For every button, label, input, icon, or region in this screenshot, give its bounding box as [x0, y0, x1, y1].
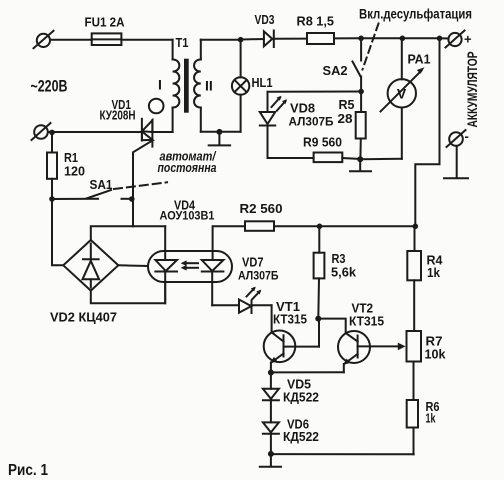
node junction [358, 89, 364, 95]
dashed link SA2 [363, 24, 379, 70]
svg-text:R9 560: R9 560 [303, 135, 342, 150]
diode VD3 [264, 31, 274, 48]
resistor R5 [356, 92, 366, 160]
svg-text:10k: 10k [425, 347, 447, 362]
wire secondary bottom rail [201, 131, 241, 133]
wire [270, 434, 272, 454]
bridge rectifier VD2 [63, 240, 118, 291]
wire [334, 37, 361, 39]
svg-text:КД522: КД522 [283, 429, 319, 444]
wire [121, 39, 172, 41]
wire top rail right [241, 38, 264, 41]
node junction [413, 224, 419, 230]
node junction [49, 130, 55, 136]
svg-text:II: II [205, 78, 213, 94]
resistor R8 [307, 33, 334, 44]
svg-text:VD7: VD7 [242, 255, 264, 270]
switch SA2 [353, 38, 362, 91]
svg-text:~220В: ~220В [31, 78, 68, 96]
transistor VT2 [338, 331, 406, 372]
LED VD8 [260, 92, 287, 158]
wire [440, 37, 449, 39]
svg-text:28: 28 [338, 111, 353, 126]
svg-text:VD2 КЦ407: VD2 КЦ407 [50, 310, 117, 325]
svg-text:+: + [464, 32, 472, 47]
svg-text:1k: 1k [427, 265, 441, 280]
node junction [238, 37, 244, 43]
wire [274, 225, 320, 227]
wire battery minus branch [415, 38, 439, 226]
svg-text:R5: R5 [339, 97, 355, 112]
dashed link SA1 [114, 182, 167, 189]
wire bottom rail [271, 453, 414, 455]
diode VD5 [263, 373, 279, 401]
node junction [129, 196, 135, 202]
svg-text:АЛ307Б: АЛ307Б [238, 269, 279, 283]
wire secondary top [201, 39, 241, 41]
svg-text:Т1: Т1 [176, 35, 189, 50]
resistor R4 [407, 226, 421, 331]
optocoupler LED (right) [202, 226, 245, 305]
node junction [49, 196, 55, 202]
svg-text:5,6k: 5,6k [331, 265, 357, 280]
battery minus stub [444, 146, 468, 178]
wire bridge right to optocoupler [118, 264, 148, 267]
transformer T1 primary winding I [173, 40, 180, 132]
wire [50, 39, 92, 41]
svg-text:КТ315: КТ315 [349, 314, 384, 329]
terminal X2 (~220V bottom) [32, 123, 51, 140]
svg-text:Рис. 1: Рис. 1 [8, 462, 48, 479]
switch SA1 [52, 190, 132, 199]
svg-text:АККУМУЛЯТОР: АККУМУЛЯТОР [464, 52, 480, 128]
node junction [268, 370, 274, 376]
svg-text:SA2: SA2 [323, 63, 348, 78]
wire [361, 37, 402, 39]
resistor R9 [268, 153, 361, 163]
node junction [268, 451, 274, 457]
wire VD8 box top rail [268, 91, 362, 93]
svg-text:I: I [158, 77, 162, 93]
transformer core [184, 59, 189, 113]
svg-text:VD3: VD3 [255, 12, 275, 27]
svg-text:КУ208Н: КУ208Н [100, 108, 136, 123]
ground [260, 454, 281, 467]
node junction [317, 224, 323, 230]
wire rail to battery branch [320, 225, 416, 227]
wire bridge bottom [91, 282, 165, 303]
resistor R2 [245, 221, 274, 231]
voltmeter PA1 [381, 38, 425, 159]
node junction [437, 36, 443, 42]
transistor VT1 [264, 319, 319, 373]
lamp HL1 [232, 40, 249, 132]
resistor R1 [47, 132, 57, 199]
wire to VT2 base [318, 319, 345, 333]
svg-text:FU1 2A: FU1 2A [85, 15, 126, 30]
wire bridge top to gate rail [91, 226, 165, 240]
wire [270, 400, 272, 422]
svg-text:АОУ103В1: АОУ103В1 [160, 209, 215, 223]
resistor R6 [407, 362, 418, 455]
svg-text:120: 120 [64, 164, 85, 179]
svg-text:РА1: РА1 [408, 52, 431, 67]
svg-text:1k: 1k [426, 411, 437, 426]
wire VD7 to VT1 [271, 305, 273, 332]
svg-text:АЛ307Б: АЛ307Б [289, 115, 334, 129]
node junction [357, 156, 363, 162]
terminal battery - [447, 130, 466, 147]
node junction [216, 129, 222, 135]
wire [402, 37, 439, 39]
resistor R3 [314, 226, 325, 318]
circle mark above triac [149, 99, 164, 114]
optocoupler U1 VD4 body [148, 251, 232, 282]
LED VD7 [212, 287, 271, 313]
terminal battery + [446, 31, 465, 48]
wire emitter rail [271, 371, 344, 373]
svg-text:КТ315: КТ315 [273, 312, 307, 327]
svg-text:SA1: SA1 [90, 177, 113, 192]
svg-text:Вкл.десульфатация: Вкл.десульфатация [359, 7, 472, 22]
diode VD6 [263, 422, 279, 433]
potentiometer R7 [407, 331, 422, 362]
svg-text:V: V [397, 86, 407, 102]
svg-text:HL1: HL1 [252, 75, 273, 90]
wire gate down [132, 199, 134, 226]
svg-text:R8 1,5: R8 1,5 [297, 14, 335, 29]
svg-text:КД522: КД522 [283, 390, 319, 405]
optocoupler light arrows [181, 260, 198, 270]
node junction [400, 36, 406, 42]
svg-text:-: - [465, 129, 469, 144]
wire left branch down [52, 199, 63, 265]
transformer T1 secondary winding II [194, 40, 201, 132]
svg-text:постоянна: постоянна [158, 160, 217, 175]
node junction [358, 36, 364, 42]
node junction [315, 316, 321, 322]
svg-text:VD8: VD8 [290, 101, 315, 116]
ground [350, 159, 371, 171]
terminal X1 (~220V top) [34, 31, 54, 48]
thyristor VD1 (triac) [48, 119, 173, 199]
svg-text:R2 560: R2 560 [240, 201, 283, 216]
ground [209, 132, 230, 146]
wire [275, 38, 307, 40]
wire voltmeter to R5/R9 node [360, 158, 402, 160]
optocoupler photothyristor (left) [155, 226, 177, 303]
fuse FU1 [92, 33, 122, 45]
